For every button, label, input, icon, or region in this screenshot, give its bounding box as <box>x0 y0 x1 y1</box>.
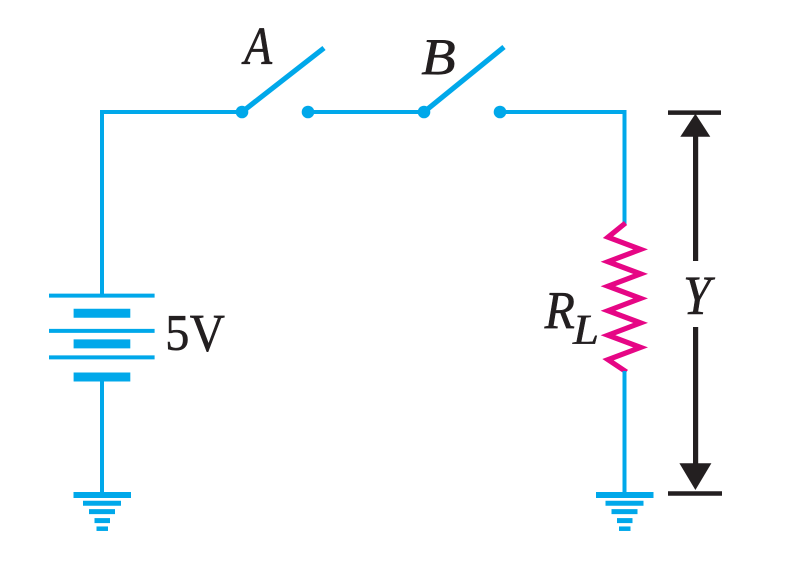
label 5V: digit 5 <box>168 316 187 350</box>
wire: battery positive terminal up and across to switch A <box>102 112 242 297</box>
left ground bar 1 <box>74 492 132 498</box>
left ground bar 3 <box>89 509 115 514</box>
wire: resistor RL bottom to right ground <box>623 371 627 494</box>
battery 5V plate 5 (long thin) <box>49 355 155 359</box>
label Y <box>686 278 715 314</box>
node: contact dot after switch B <box>494 106 507 119</box>
dimension Y: upper line segment <box>693 134 698 261</box>
right ground bar 1 <box>596 492 654 498</box>
label B <box>422 40 455 74</box>
right ground bar 4 <box>617 518 633 523</box>
wire: battery negative terminal down to left ground <box>100 377 104 494</box>
dimension Y: bottom end bar <box>668 491 722 496</box>
left ground bar 4 <box>95 518 111 523</box>
battery 5V plate 1 (long thin) <box>49 294 155 298</box>
right ground bar 3 <box>612 509 638 514</box>
battery 5V plate 2 (short thick) <box>74 309 131 318</box>
dimension Y: lower line segment <box>693 327 698 466</box>
wire: between switch A contact and switch B hinge <box>308 110 424 114</box>
label RL: letter R <box>544 293 574 328</box>
label A <box>242 28 273 63</box>
switch A blade (open) <box>242 48 324 112</box>
left ground bar 5 <box>97 526 109 531</box>
dimension Y: top arrowhead <box>680 114 710 137</box>
node: switch A hinge dot <box>236 106 249 119</box>
right ground bar 2 <box>606 501 644 506</box>
left ground bar 2 <box>83 501 121 506</box>
dimension Y: top end bar <box>668 110 721 115</box>
node: switch B hinge dot <box>418 106 431 119</box>
battery 5V plate 4 (short thick) <box>74 339 131 348</box>
resistor RL zigzag <box>608 223 641 372</box>
dimension Y: bottom arrowhead <box>679 463 711 490</box>
node: contact dot after switch A <box>302 106 315 119</box>
right ground bar 5 <box>619 526 631 531</box>
switch B blade (open) <box>424 47 504 112</box>
wire: switch B contact across and down to resistor RL <box>500 112 625 224</box>
battery 5V plate 6 (short thick) <box>74 373 131 382</box>
battery 5V plate 3 (long thin) <box>49 329 155 333</box>
label RL: subscript L <box>572 316 596 344</box>
label 5V: letter V <box>190 316 224 352</box>
